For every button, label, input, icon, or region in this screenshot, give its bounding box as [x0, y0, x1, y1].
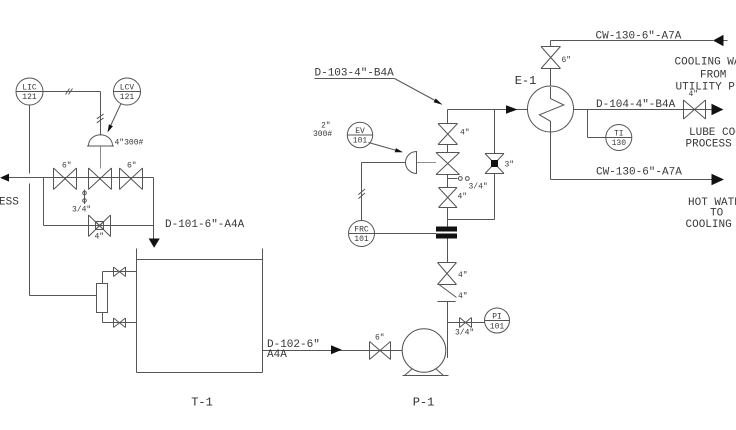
TI connection — [588, 110, 606, 138]
valve stem — [100, 147, 102, 169]
svg-text:130: 130 — [612, 139, 627, 148]
riser orifice to valve — [447, 239, 449, 263]
bypass valve 4in — [89, 215, 111, 242]
bypass line — [44, 178, 154, 226]
riser top — [447, 110, 449, 124]
top header to E-1 — [448, 109, 529, 111]
svg-text:ESS: ESS — [0, 197, 19, 209]
level gauge — [97, 272, 137, 323]
E-1 top cooling line — [551, 41, 714, 87]
svg-text:D-104-4"-B4A: D-104-4"-B4A — [596, 99, 676, 111]
arrowhead LCV — [108, 124, 113, 132]
valve 6in V1 — [54, 162, 77, 190]
svg-text:PI: PI — [492, 313, 502, 322]
valve 4in VD — [438, 263, 468, 285]
svg-text:3/4": 3/4" — [455, 329, 474, 338]
svg-text:FROM: FROM — [700, 70, 726, 82]
arrow hot water outlet — [712, 174, 725, 186]
gauge valve lower — [114, 318, 126, 328]
FRC to orifice line — [375, 233, 437, 235]
svg-text:PROCESS OIL: PROCESS OIL — [686, 139, 736, 151]
instrument LCV 121 — [114, 78, 141, 105]
signal line LIC down to gauge — [30, 105, 98, 296]
svg-text:101: 101 — [353, 137, 368, 146]
svg-text:CW-130-6"-A7A: CW-130-6"-A7A — [596, 167, 682, 179]
svg-text:LIC: LIC — [22, 84, 37, 93]
svg-text:E-1: E-1 — [515, 74, 537, 88]
svg-text:3/4": 3/4" — [72, 206, 91, 215]
main pipe — [9, 178, 154, 239]
svg-text:4": 4" — [458, 271, 468, 280]
svg-text:COOLING WATER: COOLING WATER — [675, 57, 736, 69]
instrument TI 130 — [606, 125, 632, 151]
valve 6in CW — [541, 47, 571, 69]
svg-text:EV: EV — [355, 127, 365, 136]
control valve LCV body — [89, 168, 112, 190]
svg-text:3": 3" — [505, 161, 515, 170]
arrow D-104 outlet — [712, 104, 724, 116]
instrument EV 101 — [347, 122, 372, 147]
gauge valve upper — [114, 267, 126, 277]
label D-103 — [315, 68, 395, 80]
svg-text:6": 6" — [62, 162, 72, 171]
svg-text:LUBE COOLER: LUBE COOLER — [689, 127, 736, 139]
pump P-1 — [402, 329, 448, 410]
signal tick 3 — [358, 189, 365, 199]
vent stub 3/4 column — [448, 177, 488, 192]
svg-text:101: 101 — [354, 235, 369, 244]
right branch — [448, 110, 495, 220]
svg-text:4": 4" — [460, 129, 470, 138]
flow arrow suction — [331, 345, 342, 354]
E-1 outlet line — [574, 109, 712, 111]
svg-text:121: 121 — [120, 93, 135, 102]
orifice plate — [436, 227, 457, 239]
dome stem — [417, 162, 436, 164]
valve 3in branch — [485, 154, 514, 174]
valve 6in V2 — [120, 162, 143, 190]
pump discharge riser — [447, 302, 449, 359]
svg-text:121: 121 — [22, 93, 37, 102]
valve 3/4 PI — [455, 318, 474, 338]
signal EV to dome — [369, 143, 397, 151]
valve 4in D-104 — [684, 90, 706, 119]
drain stub 3/4 — [72, 190, 91, 215]
heat exchanger E-1 — [515, 74, 574, 132]
svg-text:COOLING TOWER: COOLING TOWER — [686, 219, 736, 231]
svg-text:T-1: T-1 — [191, 396, 213, 410]
svg-text:D-103-4"-B4A: D-103-4"-B4A — [315, 68, 395, 80]
svg-text:4": 4" — [458, 193, 468, 202]
instrument FRC 101 — [349, 221, 375, 247]
svg-text:UTILITY PLANT: UTILITY PLANT — [676, 82, 736, 94]
svg-text:6": 6" — [562, 56, 572, 65]
riser VC to orifice — [447, 208, 449, 227]
E-1 bottom hot water line — [551, 132, 712, 180]
svg-text:TI: TI — [614, 130, 624, 139]
signal FRC to dome — [362, 163, 406, 221]
tank T-1 — [137, 249, 263, 410]
flow arrow to E-1 — [506, 105, 518, 114]
actuator dome LCV — [89, 135, 113, 146]
instrument PI 101 — [485, 308, 510, 333]
flow arrow off-page left — [0, 174, 9, 182]
valve 4in VA — [438, 124, 470, 145]
svg-text:LCV: LCV — [120, 84, 135, 93]
riser VB to VC — [447, 175, 449, 188]
svg-text:D-101-6"-A4A: D-101-6"-A4A — [165, 219, 245, 231]
svg-text:P-1: P-1 — [413, 396, 435, 410]
leader D-103 — [395, 79, 437, 102]
valve 6in suction — [370, 334, 391, 360]
svg-text:3/4": 3/4" — [469, 183, 488, 192]
svg-text:FRC: FRC — [354, 226, 369, 235]
PI branch — [448, 322, 485, 324]
svg-text:300#: 300# — [313, 130, 332, 139]
svg-text:101: 101 — [490, 323, 505, 332]
riser VA to VB — [447, 145, 449, 153]
valve 4in VC — [439, 188, 468, 208]
svg-text:TO: TO — [710, 208, 724, 220]
svg-text:4": 4" — [689, 90, 699, 99]
signal tick 2 — [97, 114, 104, 123]
check valve 4in — [438, 285, 468, 302]
svg-text:4"300#: 4"300# — [115, 139, 144, 148]
signal tick 1 — [66, 89, 73, 95]
tank outlet pipe — [263, 350, 403, 352]
svg-text:A4A: A4A — [267, 349, 287, 361]
svg-text:6": 6" — [375, 334, 385, 343]
instrument LIC 121 — [16, 78, 43, 105]
svg-text:6": 6" — [127, 162, 137, 171]
actuator dome FV — [406, 152, 417, 174]
arrow CW inlet — [713, 35, 724, 46]
svg-text:CW-130-6"-A7A: CW-130-6"-A7A — [596, 31, 682, 43]
signal line LIC to valve — [43, 92, 101, 136]
svg-text:4": 4" — [95, 233, 105, 242]
control valve FV body — [436, 153, 460, 175]
svg-text:4": 4" — [458, 292, 468, 301]
arrow into tank — [149, 239, 160, 248]
signal line LCV to valve — [110, 104, 121, 128]
